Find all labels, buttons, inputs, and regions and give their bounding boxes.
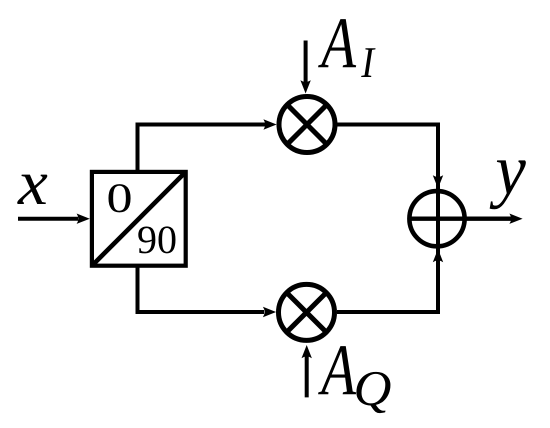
- label A of AQ: [318, 346, 356, 394]
- wire input x arrow line: [18, 217, 78, 221]
- label 0 in splitter: [108, 184, 130, 212]
- mixer M1 X diagonal 2: [287, 105, 327, 145]
- mixer M2 circle: [279, 284, 335, 340]
- arrowhead into M1 left: [263, 119, 276, 129]
- arrowhead into M2 left: [263, 307, 276, 317]
- label 90 in splitter: [138, 226, 175, 253]
- label Q subscript: [356, 372, 390, 413]
- mixer M1 circle: [279, 97, 335, 153]
- phase splitter box U1: [92, 172, 186, 266]
- label A of AI: [318, 19, 356, 67]
- label y output: [490, 160, 526, 209]
- wire M1 to adder down through adder to M2: [337, 125, 438, 313]
- label x input: [17, 175, 47, 204]
- arrowhead into adder bottom: [433, 249, 443, 262]
- arrowhead into adder top: [433, 175, 443, 188]
- wire AQ input: [305, 354, 309, 397]
- mixer M2 X diagonal 2: [287, 293, 327, 333]
- arrowhead output y: [509, 214, 522, 224]
- adder plus horizontal and output wire: [409, 216, 513, 220]
- arrowhead AI into M1 top: [300, 80, 310, 93]
- arrowhead AQ into M2 bottom: [302, 345, 312, 358]
- adder U2 circle: [409, 191, 464, 246]
- mixer M1 X diagonal 1: [287, 105, 327, 145]
- mixer M2 X diagonal 1: [287, 293, 327, 333]
- wire box top to top mixer: [138, 125, 267, 172]
- diagonal of splitter box: [93, 173, 185, 265]
- wire box bottom to bottom mixer: [138, 266, 265, 312]
- wire AI input: [304, 41, 308, 84]
- arrowhead into splitter box: [77, 214, 90, 224]
- label I subscript: [361, 48, 375, 77]
